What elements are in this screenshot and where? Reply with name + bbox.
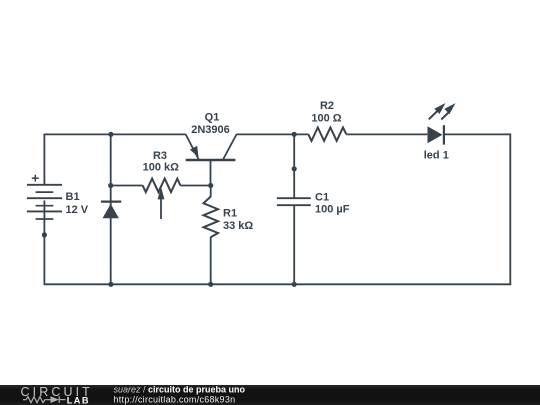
svg-text:R1: R1 xyxy=(223,208,237,220)
svg-text:12 V: 12 V xyxy=(66,204,89,216)
svg-text:100 Ω: 100 Ω xyxy=(311,112,341,124)
svg-text:R2: R2 xyxy=(320,100,334,112)
svg-text:R3: R3 xyxy=(153,150,167,162)
svg-text:LAB: LAB xyxy=(67,395,90,405)
svg-text:2N3906: 2N3906 xyxy=(191,124,230,136)
svg-text:http://circuitlab.com/c68k93n: http://circuitlab.com/c68k93n xyxy=(114,395,236,405)
svg-text:led 1: led 1 xyxy=(424,150,449,162)
svg-text:B1: B1 xyxy=(66,191,80,203)
svg-text:suarez / circuito de prueba un: suarez / circuito de prueba uno xyxy=(114,385,246,395)
svg-text:33 kΩ: 33 kΩ xyxy=(223,220,253,232)
svg-text:Q1: Q1 xyxy=(205,112,220,124)
svg-text:100 kΩ: 100 kΩ xyxy=(143,162,180,174)
svg-text:100 µF: 100 µF xyxy=(315,204,350,216)
svg-text:C1: C1 xyxy=(315,191,329,203)
